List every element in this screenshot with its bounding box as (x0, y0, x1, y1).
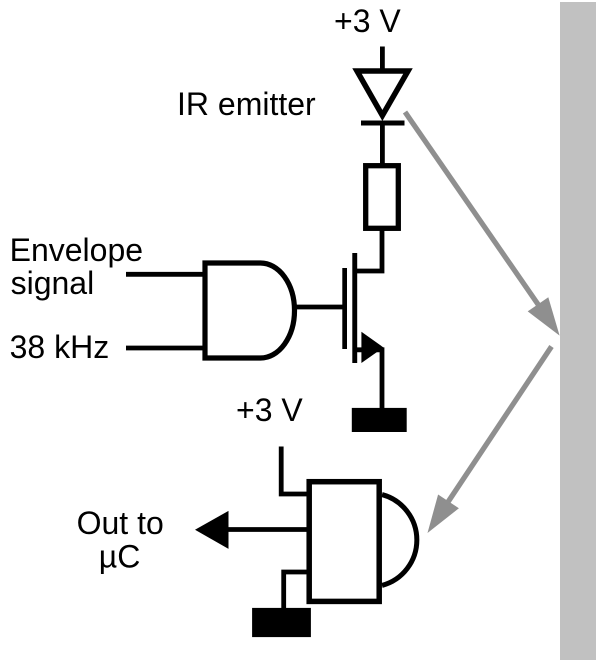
wire: receiver output pin (228, 527, 309, 532)
IR receiver module U2 body (309, 482, 379, 602)
svg-text:+3 V: +3 V (236, 392, 303, 428)
wire: +3V supply to LED anode (380, 47, 385, 73)
svg-text:signal: signal (11, 265, 95, 301)
MOSFET Q1 source arrow (361, 332, 383, 363)
svg-text:+3 V: +3 V (334, 3, 401, 39)
wire: AND gate output to MOSFET gate (293, 305, 343, 310)
gray page-edge bar (560, 2, 596, 660)
MOSFET Q1 channel bar (352, 253, 357, 363)
svg-text:µC: µC (99, 538, 141, 574)
gray arrow 1 head (528, 297, 560, 335)
svg-text:Envelope: Envelope (10, 232, 143, 268)
wire: LED cathode to resistor R1 (380, 122, 385, 166)
svg-text:IR emitter: IR emitter (177, 86, 316, 122)
svg-text:Out to: Out to (77, 505, 164, 541)
AND gate U1 (205, 263, 294, 358)
MOSFET Q1 source wire to ground (356, 350, 382, 410)
LED D1 cathode bar (361, 121, 405, 126)
ground (MOSFET source) (352, 408, 407, 432)
wire: +3V to receiver Vcc pin (281, 447, 310, 495)
IR receiver module U2 dome lens (382, 495, 417, 586)
input wire: Envelope signal (126, 272, 208, 277)
MOSFET Q1 gate bar (342, 268, 347, 349)
LED D1 IR emitter: anode triangle (357, 71, 408, 116)
gray arrow 2 shaft (from page edge to IR receiver) (448, 347, 552, 503)
resistor R1 (366, 166, 399, 229)
wire: receiver ground pin (284, 572, 310, 610)
input wire: 38 kHz (126, 346, 208, 351)
gray arrow 1 shaft (from IR emitter to page edge) (405, 112, 540, 307)
svg-text:38 kHz: 38 kHz (10, 329, 110, 365)
ground (receiver) (252, 608, 311, 637)
gray arrow 2 head (428, 495, 459, 534)
wire: resistor R1 to MOSFET drain (356, 228, 382, 271)
arrowhead: out to microcontroller (195, 511, 229, 549)
